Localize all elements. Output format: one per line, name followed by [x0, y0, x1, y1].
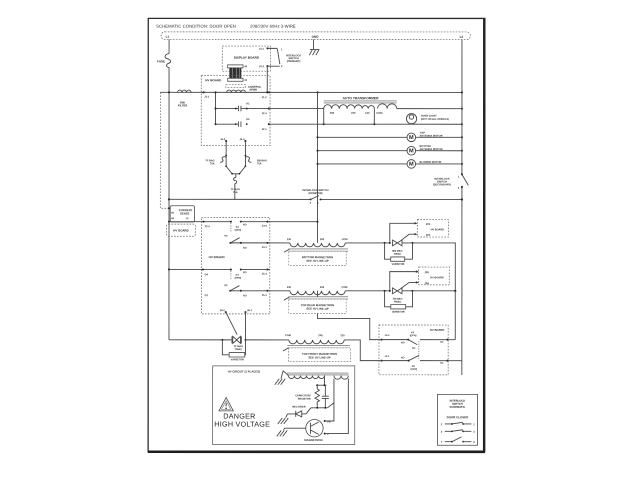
- display board dashed box: [222, 46, 270, 71]
- varistor TF: [222, 340, 245, 362]
- title: SCHEMATIC CONDITION: DOOR OPEN: [156, 24, 296, 29]
- svg-text:75A: 75A: [210, 162, 215, 165]
- HV circuit box: [213, 366, 355, 445]
- current sense module: [168, 206, 195, 222]
- svg-text:J5-1: J5-1: [262, 294, 268, 297]
- svg-text:J3-1: J3-1: [262, 246, 268, 249]
- auto transformer T2: [323, 96, 397, 125]
- svg-text:208: 208: [320, 238, 325, 241]
- svg-text:JP5: JP5: [424, 271, 429, 274]
- wire: row2 K3 out: [230, 242, 290, 249]
- wire: transformer right end to right rail: [397, 108, 463, 110]
- HV transformer primary: [288, 376, 324, 379]
- svg-text:J4-4: J4-4: [240, 138, 246, 141]
- wires to JP3/JP2: [390, 222, 418, 243]
- svg-text:(SPN): (SPN): [235, 229, 242, 232]
- svg-text:TRIAC: TRIAC: [394, 301, 402, 304]
- wire: J6-1 to TF row: [244, 312, 246, 341]
- page border frame: [148, 18, 485, 452]
- svg-text:SEE HV LINE-UP: SEE HV LINE-UP: [308, 355, 330, 359]
- varistor TB: [385, 291, 413, 314]
- svg-text:230: 230: [287, 286, 292, 289]
- svg-text:ANTENNA MOTOR: ANTENNA MOTOR: [420, 147, 443, 151]
- svg-text:J4-3: J4-3: [259, 65, 265, 68]
- svg-text:HIGH VOLTAGE: HIGH VOLTAGE: [214, 420, 270, 429]
- rectifier diode: [278, 406, 311, 424]
- svg-text:HV BOARD: HV BOARD: [173, 229, 188, 233]
- core + callout top rear magnetron: [284, 297, 348, 300]
- svg-text:SEE HV LINE-UP: SEE HV LINE-UP: [306, 307, 328, 311]
- svg-text:75A: 75A: [233, 191, 238, 194]
- svg-text:MAGNETRON: MAGNETRON: [304, 438, 322, 442]
- triac TF MAG: [232, 336, 243, 351]
- interlock switch (secondary): [433, 173, 468, 189]
- svg-text:J4-3: J4-3: [220, 138, 226, 141]
- fuse F1 on L1 drop: [157, 39, 171, 92]
- svg-text:J6-2: J6-2: [220, 309, 226, 312]
- wire: J6-2 gate lead to TF triac: [226, 312, 237, 335]
- svg-text:M: M: [409, 135, 414, 141]
- svg-text:230: 230: [351, 111, 356, 115]
- wire: legs converge: [226, 166, 245, 174]
- svg-text:ANTENNA MOTOR: ANTENNA MOTOR: [420, 134, 443, 138]
- wire: K1 row to transformer: [269, 108, 324, 110]
- svg-text:(MONITOR): (MONITOR): [309, 191, 323, 195]
- wire: row B to rail junction: [412, 290, 456, 340]
- svg-text:TRIAC: TRIAC: [234, 348, 242, 351]
- core + callout top front magnetron: [283, 346, 350, 351]
- wire: coil B to triac: [345, 290, 391, 292]
- svg-text:J2-4: J2-4: [205, 225, 211, 228]
- wire: L2 rail into D1: [447, 360, 461, 362]
- relay contact K1: [214, 91, 268, 124]
- svg-text:NO: NO: [401, 356, 405, 359]
- svg-text:230: 230: [340, 334, 345, 337]
- varistor BB: [385, 243, 413, 266]
- wire: left branch to current sense: [160, 92, 169, 208]
- wire: main L1 line y=92.4: [160, 91, 462, 93]
- svg-text:M: M: [409, 148, 414, 154]
- lower node line: [311, 403, 334, 409]
- svg-text:NO: NO: [243, 247, 247, 250]
- svg-text:VARISTOR: VARISTOR: [392, 311, 405, 314]
- connectors J6-2 / J6-1 bottom of box2: [220, 309, 253, 313]
- svg-text:JP3: JP3: [426, 223, 431, 226]
- wire: TF triac row from left rail: [170, 339, 231, 341]
- wire: row1 to J3-4: [241, 221, 319, 228]
- relay K5 contact (top row): [381, 331, 449, 359]
- triac TB MAG: [393, 288, 414, 304]
- svg-text:NO: NO: [243, 223, 247, 226]
- monitor line y=199.4: [168, 198, 463, 200]
- relay K4: [224, 268, 246, 297]
- svg-text:L2: L2: [460, 35, 464, 39]
- svg-text:XFMR: XFMR: [249, 88, 257, 92]
- svg-text:75A: 75A: [257, 162, 262, 165]
- core + callout bottom magnetron: [284, 249, 348, 252]
- svg-text:NO: NO: [243, 294, 247, 297]
- center rail x=317.5: [316, 91, 318, 243]
- wires to JP5/JP4: [390, 270, 419, 290]
- svg-text:J3-4: J3-4: [262, 225, 268, 228]
- svg-text:RESISTOR: RESISTOR: [298, 398, 311, 401]
- svg-text:J3-2: J3-2: [385, 334, 390, 337]
- interlock switch (primary): [259, 47, 301, 68]
- wire: display board to main line: [266, 66, 268, 93]
- HV board box 3 (bottom relay): [379, 325, 448, 375]
- svg-text:J2-1: J2-1: [262, 128, 268, 131]
- motor M1 top antenna: [316, 131, 463, 142]
- wire: K2 / lamp row: [269, 123, 463, 125]
- interlock schematic row 2: [441, 430, 476, 434]
- svg-text:COM: COM: [342, 286, 348, 289]
- svg-text:SCHEMATIC CONDITION: DOOR OPEN: SCHEMATIC CONDITION: DOOR OPEN: [156, 24, 236, 29]
- ground (chassis) under GND: [309, 39, 319, 55]
- svg-text:J1-1: J1-1: [204, 96, 210, 99]
- svg-text:AUTO TRANSFORMER: AUTO TRANSFORMER: [343, 96, 379, 100]
- wire: row3 to J5-4: [205, 268, 270, 297]
- display transformer T1 (wound block): [228, 65, 248, 82]
- wire: row A to right rail elbow: [412, 243, 455, 291]
- label box: BOTTOM MAGNETRON: [289, 251, 346, 265]
- bottom magnetron primary coil: [287, 238, 348, 247]
- svg-text:NC: NC: [412, 347, 416, 350]
- filament legs to magnetron: [324, 379, 349, 437]
- relay K3: [224, 221, 246, 250]
- relay K6 contact (bottom row): [381, 355, 449, 371]
- svg-text:COM: COM: [376, 111, 382, 115]
- svg-text:JP4: JP4: [424, 282, 429, 285]
- svg-text:HV BOARD: HV BOARD: [430, 276, 444, 279]
- HV transformer core: [287, 373, 349, 375]
- wire: coil3 to relay J-1 (jog): [344, 340, 380, 361]
- capacitor: [322, 385, 329, 408]
- svg-text:RECTIFIER: RECTIFIER: [292, 406, 305, 409]
- interlock switch schematic box: [437, 394, 477, 445]
- svg-text:HV BOARD: HV BOARD: [209, 255, 226, 259]
- svg-text:120: 120: [365, 111, 370, 115]
- svg-text:J4-1: J4-1: [259, 48, 265, 51]
- relay contact K2: [214, 118, 250, 127]
- svg-text:208: 208: [318, 334, 323, 337]
- wire: row4 K4 out: [230, 290, 290, 297]
- HV board box 2 (mid relay board): [201, 217, 269, 313]
- wire: coil B tap to relay J-2 (jog): [316, 291, 318, 297]
- thermal fuse BB (right leg): [245, 141, 267, 167]
- svg-text:JP2: JP2: [426, 234, 431, 237]
- wire: TF row to coil 3: [245, 339, 288, 341]
- svg-text:L1: L1: [166, 35, 170, 39]
- svg-text:(SECONDARY): (SECONDARY): [433, 182, 451, 186]
- svg-text:TRIAC: TRIAC: [394, 253, 402, 256]
- svg-text:(PRIMARY): (PRIMARY): [287, 59, 301, 63]
- wire: rail A into D2: [447, 339, 455, 341]
- primary left lead to chassis ground: [275, 371, 289, 385]
- svg-text:DISPLAY BOARD: DISPLAY BOARD: [234, 56, 260, 60]
- wire: row1 current sense out: [168, 221, 231, 229]
- motor M2 bottom antenna: [316, 144, 463, 155]
- svg-text:(DPN): (DPN): [410, 334, 417, 337]
- svg-text:(SPN): (SPN): [235, 277, 242, 280]
- svg-text:BLOWER MOTOR: BLOWER MOTOR: [420, 160, 442, 164]
- DANGER HIGH VOLTAGE text: [214, 412, 270, 429]
- svg-text:VARISTOR: VARISTOR: [231, 357, 244, 361]
- svg-text:J6-1: J6-1: [247, 309, 253, 312]
- label box: TOP REAR MAGNETRON: [289, 299, 346, 313]
- filament winding: [334, 376, 348, 380]
- line choke on main line: [178, 90, 192, 107]
- triac BB MAG: [392, 240, 413, 256]
- board edge terminals J1-2 J2-4 J2-1: [262, 91, 270, 131]
- svg-text:NO: NO: [243, 271, 247, 274]
- JP box A (HV BOARD): [417, 220, 448, 238]
- svg-text:J3-1: J3-1: [385, 355, 390, 358]
- right rail L2 x=461.9: [461, 40, 463, 361]
- svg-text:HV BOARD: HV BOARD: [205, 78, 222, 82]
- svg-text:NO: NO: [401, 341, 405, 344]
- label box: TOP FRONT MAGNETRON: [288, 348, 350, 362]
- svg-text:FILTER: FILTER: [178, 104, 187, 108]
- svg-text:230: 230: [287, 238, 292, 241]
- HV lead node: [316, 376, 326, 387]
- HV board box 1 (control): [201, 76, 270, 146]
- oven light LAMP: [406, 114, 449, 124]
- svg-text:SEE HV LINE-UP: SEE HV LINE-UP: [306, 259, 328, 263]
- resistor (bleed): [295, 385, 319, 408]
- thermal fuse TF (left leg): [205, 141, 227, 167]
- svg-text:NC: NC: [224, 284, 228, 287]
- svg-text:208/230V 60Hz 3-WIRE: 208/230V 60Hz 3-WIRE: [250, 24, 296, 29]
- node J1-1: [202, 91, 209, 98]
- HV BOARD label box (dashed): [167, 224, 196, 236]
- svg-text:SENSE: SENSE: [180, 211, 190, 215]
- svg-text:NC: NC: [225, 235, 229, 238]
- interlock schematic row 1: [441, 422, 476, 426]
- left rail x=169 (fuse to TF triac row): [168, 91, 170, 340]
- thermal fuse TF BAG center: [231, 174, 240, 200]
- svg-text:DOOR CLOSED: DOOR CLOSED: [447, 415, 469, 419]
- wire: row3 K4 feed: [168, 268, 231, 276]
- svg-text:M: M: [409, 162, 414, 168]
- JP box B (HV BOARD): [419, 267, 450, 285]
- svg-text:SCHEMATIC: SCHEMATIC: [450, 405, 466, 409]
- warning triangle: [219, 398, 233, 411]
- svg-text:J2-4: J2-4: [262, 112, 268, 115]
- svg-text:VARISTOR: VARISTOR: [392, 263, 405, 266]
- svg-text:HV BOARD: HV BOARD: [431, 228, 445, 231]
- svg-text:J5-4: J5-4: [262, 273, 268, 276]
- svg-text:208: 208: [320, 286, 325, 289]
- svg-text:COM: COM: [285, 334, 291, 337]
- connectors J4-3 / J4-4 bottom of box1: [220, 138, 246, 142]
- interlock schematic row 3: [441, 437, 476, 444]
- svg-text:(NOT ON ALL MODELS): (NOT ON ALL MODELS): [421, 118, 449, 121]
- svg-text:GND: GND: [312, 35, 320, 39]
- svg-text:208: 208: [330, 111, 335, 115]
- svg-text:FUSE: FUSE: [157, 59, 165, 63]
- svg-text:COM: COM: [342, 238, 348, 241]
- top front magnetron primary coil: [285, 334, 345, 344]
- svg-text:FA: FA: [328, 421, 331, 424]
- svg-text:(DPN): (DPN): [411, 368, 418, 371]
- wire: coil A to triac: [345, 242, 391, 244]
- L1/L2 power bus (dashed capsule): [161, 32, 470, 40]
- top rear magnetron primary coil: [287, 286, 348, 295]
- svg-text:J1-2: J1-2: [262, 96, 268, 99]
- motor M3 blower: [316, 160, 463, 169]
- magnetron: [277, 419, 323, 442]
- interlock switch (monitor): [302, 188, 328, 205]
- control transformer (dashed box + coil): [226, 85, 262, 93]
- svg-text:HV BOARD: HV BOARD: [430, 328, 444, 332]
- svg-text:HV CIRCUIT (2 PLACES): HV CIRCUIT (2 PLACES): [228, 369, 260, 373]
